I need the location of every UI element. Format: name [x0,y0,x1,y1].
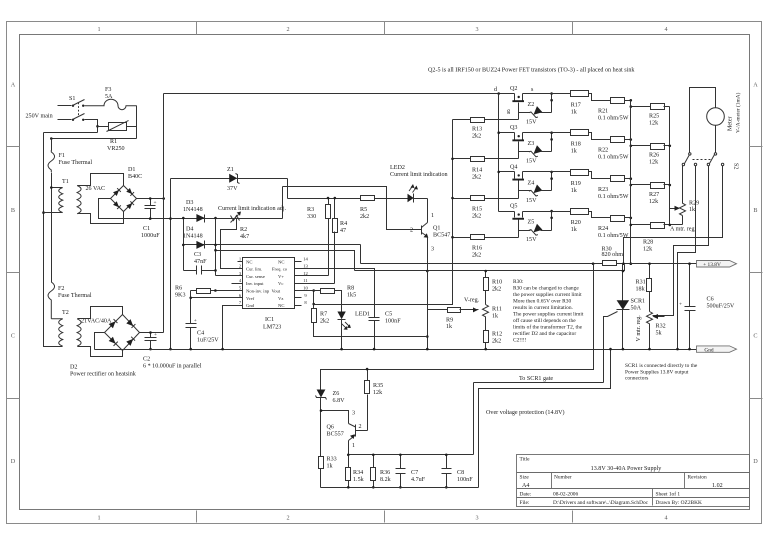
resistor R24 [598,216,631,240]
bridge rectifier D2 [70,315,140,378]
svg-text:R17: R17 [571,103,581,109]
svg-text:F1: F1 [59,153,65,159]
svg-text:2: 2 [286,26,289,33]
svg-text:1k5: 1k5 [347,293,356,299]
svg-text:12k: 12k [649,121,659,127]
svg-text:1k: 1k [571,227,578,233]
svg-text:R34: R34 [353,470,363,476]
svg-text:21VAC/40A: 21VAC/40A [81,319,112,325]
output rail +13.8 [361,263,603,265]
svg-text:R22: R22 [598,148,608,154]
svg-text:C3: C3 [194,252,201,258]
svg-text:C5: C5 [385,312,392,318]
svg-text:R4: R4 [340,221,347,227]
wire drive row [288,198,361,200]
svg-text:2k2: 2k2 [472,175,481,181]
svg-text:V-reg.: V-reg. [464,298,480,304]
svg-text:LED1: LED1 [355,312,370,318]
svg-text:R2: R2 [240,227,247,233]
RIGHT SIDE [513,88,742,383]
svg-text:3: 3 [352,411,355,417]
resistor R4 [333,199,348,284]
svg-text:Current limit indication: Current limit indication [390,172,448,178]
svg-text:To SCR1 gate: To SCR1 gate [519,376,553,382]
svg-text:Z5: Z5 [528,220,535,226]
wire crowbar sense from +13.8 rail [321,264,594,390]
wire anode feed vertical [183,219,185,271]
svg-text:R35: R35 [373,383,383,389]
svg-text:0.1 ohm/5W: 0.1 ohm/5W [598,116,629,122]
svg-text:A mtr. reg.: A mtr. reg. [670,227,697,233]
svg-text:T2: T2 [62,310,69,316]
svg-text:330: 330 [307,214,316,220]
svg-text:Inv. input: Inv. input [246,281,264,286]
wire crowbar bottom rail [321,487,479,489]
svg-text:R16: R16 [472,246,482,252]
svg-text:R10: R10 [492,280,502,286]
AC INPUT SECTION [26,87,697,378]
svg-text:Freq. co: Freq. co [272,267,288,272]
power flag Gnd [697,346,737,354]
svg-text:F2: F2 [58,286,64,292]
switch S1 [58,96,85,121]
capacitor C6 [679,264,735,350]
wire pin10 [302,290,321,292]
svg-text:2k2: 2k2 [472,253,481,259]
svg-text:R29: R29 [689,201,699,207]
svg-text:Q2-5 is all IRF150 or BUZ24 Po: Q2-5 is all IRF150 or BUZ24 Power FET tr… [428,67,635,74]
svg-text:D1: D1 [128,167,135,173]
node V+ tie [162,197,165,200]
wire row3 drain [499,171,515,173]
svg-text:820 ohm: 820 ohm [602,252,624,258]
svg-text:4k7: 4k7 [240,234,249,240]
svg-text:Sheet 1of 1: Sheet 1of 1 [656,491,681,498]
svg-text:File:: File: [520,500,530,506]
svg-text:C1: C1 [143,226,150,232]
wire L return to F1 [52,138,137,140]
wire pin13 to C5 [302,269,375,318]
transformer T2 [51,310,81,346]
svg-text:15V: 15V [526,120,537,126]
svg-text:Size: Size [520,475,530,481]
svg-text:1N4148: 1N4148 [183,207,203,213]
resistor R20 [523,209,611,234]
svg-text:+: + [154,200,157,206]
resistor R27 [631,183,670,205]
resistor R12 [484,331,503,350]
svg-text:B: B [11,207,15,214]
transistor Q6 [327,411,368,455]
wire output rail to R30 [592,262,595,265]
svg-text:C6: C6 [707,297,714,303]
resistor R28 [631,223,683,253]
svg-text:A4: A4 [522,483,529,489]
svg-text:BC547: BC547 [433,233,450,239]
svg-text:R24: R24 [598,226,608,232]
wire S2 to v-reg pot [653,166,709,316]
resistor R25 [631,104,670,127]
wire S2 to shunt sense [624,166,723,264]
svg-text:C7: C7 [411,470,418,476]
svg-text:R7: R7 [320,312,327,318]
svg-text:D2: D2 [70,365,77,371]
svg-text:+: + [679,302,682,308]
resistor R22 [598,137,631,161]
svg-text:limits of the transformer T2,: limits of the transformer T2, the [513,324,583,331]
wire sense vertical [215,219,217,276]
node junction [50,137,53,140]
wire pin7 to gnd [223,306,238,350]
svg-text:15V: 15V [526,237,537,243]
svg-text:V-/A-meter (1mA): V-/A-meter (1mA) [735,92,742,133]
wire D1 minus loop [99,199,171,219]
wire emitter row to gate pair [473,383,475,455]
svg-text:The power supplies current lim: The power supplies current limit [513,312,584,318]
svg-text:Cur. lim.: Cur. lim. [246,267,262,272]
svg-text:2k2: 2k2 [472,134,481,140]
resistor R19 [523,170,611,194]
svg-text:4.7uF: 4.7uF [411,477,426,483]
wire drive to gate bus [314,120,453,305]
svg-text:Revision: Revision [688,475,707,481]
svg-text:Z6: Z6 [333,391,340,397]
wire row4 drain [499,211,515,213]
wire D1 plus rail [137,198,164,200]
svg-text:D3: D3 [186,200,193,206]
svg-text:R30:: R30: [513,279,524,285]
potentiometer R32 [647,312,666,350]
svg-text:12k: 12k [643,247,653,253]
svg-text:NC: NC [278,303,284,308]
wire minus vertical to gnd rail [170,179,172,350]
switch S2 [682,153,738,170]
svg-text:1: 1 [352,443,355,449]
wire N return [44,132,98,134]
svg-text:3: 3 [475,515,478,522]
svg-text:Title: Title [520,457,531,463]
wire drain bus [498,94,500,212]
fuse F2 thermal [48,282,92,319]
wire D2 plus rail [140,332,164,334]
svg-text:2k2: 2k2 [360,214,369,220]
resistor R21 [598,98,631,122]
gnd rail 1 [95,349,697,351]
svg-text:NC: NC [278,259,284,264]
resistor R5 [360,196,408,221]
svg-text:Vout: Vout [272,289,281,294]
svg-text:Non-inv. inp: Non-inv. inp [246,289,270,294]
svg-text:47nF: 47nF [194,259,207,265]
svg-text:B: B [753,207,757,214]
wire pin5 [216,290,238,292]
bridge rectifier D1 [111,167,143,212]
svg-text:1: 1 [97,26,100,33]
wire sense row to rail [216,251,355,271]
wire pin3 [216,275,243,277]
svg-text:R36: R36 [380,470,390,476]
row tick marks [7,146,20,148]
node T1 primary bottom [42,211,45,214]
svg-text:3: 3 [431,247,434,253]
capacitor C2 [143,332,202,370]
trimmer R2 [221,212,250,269]
svg-text:Number: Number [554,475,572,481]
svg-text:1.02: 1.02 [712,483,723,489]
svg-text:Z4: Z4 [528,180,535,186]
fuse F3 [85,87,137,110]
resistor R8 [321,286,357,312]
resistor R34 [346,455,365,488]
svg-text:connectors: connectors [625,376,648,382]
svg-text:C4: C4 [197,331,204,337]
svg-text:R15: R15 [472,207,482,213]
wire mains N down [44,133,63,347]
svg-text:14: 14 [303,256,308,261]
transistor Q1 [410,199,450,351]
wire current limit node top [283,187,417,230]
fuse F1 thermal [48,150,92,172]
svg-text:5k: 5k [656,331,663,337]
svg-text:R14: R14 [472,168,482,174]
svg-text:1uF/25V: 1uF/25V [197,338,219,344]
wire top bus [164,93,515,95]
transistor Q5 [510,204,524,238]
svg-text:1k: 1k [571,110,578,116]
svg-text:2k2: 2k2 [492,339,501,345]
wire V+ riser to top bus [163,94,165,199]
svg-text:D:\Drivers and software\..\Dia: D:\Drivers and software\..\Diagram.SchDo… [553,499,649,506]
svg-text:results in current limitation.: results in current limitation. [513,305,573,311]
svg-text:R26: R26 [649,153,659,159]
svg-text:D4: D4 [186,227,193,233]
varistor R1 [107,121,129,153]
wire gate pair horizontal [474,382,604,384]
svg-text:C: C [11,333,15,340]
svg-text:08-02-2006: 08-02-2006 [553,492,578,498]
LED1 [337,312,370,350]
svg-text:Current limit indication adj.: Current limit indication adj. [218,206,287,212]
svg-text:+ 13.8V: + 13.8V [703,262,721,268]
svg-text:11: 11 [303,278,308,283]
note SCR1 connection [625,363,698,382]
svg-text:13: 13 [303,264,308,269]
wire D2 minus loop to gnd [95,333,105,350]
REGULATOR SECTION [171,120,625,351]
svg-text:2: 2 [410,228,413,234]
column tick marks [196,22,198,35]
resistor R31 [636,264,652,312]
svg-text:d: d [494,87,497,93]
zener Z3 [519,131,553,164]
svg-text:1k: 1k [571,188,578,194]
capacitor C4 [186,318,220,350]
svg-text:2k2: 2k2 [320,319,329,325]
svg-text:0.1 ohm/5W: 0.1 ohm/5W [598,194,629,200]
node D3 junction [214,217,217,220]
svg-text:1k: 1k [571,149,578,155]
svg-text:1: 1 [97,515,100,522]
gate resistor R15 [453,196,519,220]
svg-text:4: 4 [664,26,667,33]
svg-text:Date:: Date: [520,492,532,498]
wire S2 to +13.8 [678,166,696,350]
wire D3 row [171,218,283,220]
svg-text:R30 can be changed to change: R30 can be changed to change [513,286,579,292]
svg-text:SCR1: SCR1 [631,299,646,305]
wire Q2 source row / resistor R17 [523,91,611,116]
svg-text:V+: V+ [278,274,284,279]
svg-text:D: D [753,458,758,465]
svg-text:B40C: B40C [128,174,142,180]
svg-text:Over voltage protection (14.8V: Over voltage protection (14.8V) [486,409,565,416]
svg-text:18k: 18k [636,287,646,293]
svg-text:Q2: Q2 [510,86,517,92]
svg-text:1k: 1k [492,314,499,320]
svg-text:F3: F3 [105,87,111,93]
svg-text:Z1: Z1 [227,167,234,173]
wire F1 to T1 and down to F2 [52,173,63,188]
wire Z1 right drop [287,179,289,199]
svg-text:12k: 12k [649,160,659,166]
wire S2 a-range [682,166,684,204]
resistor R7 [312,291,428,337]
resistor R33 [319,457,337,488]
wire emitter row [349,454,474,456]
svg-text:C: C [753,333,757,340]
svg-text:Meter: Meter [728,116,734,131]
svg-text:Cur. sense: Cur. sense [246,274,265,279]
svg-text:8.2k: 8.2k [380,477,392,483]
svg-text:Vc: Vc [278,281,283,286]
node drain bus top [497,92,500,95]
svg-text:Q5: Q5 [510,204,517,210]
potentiometer R29 [670,167,700,225]
IC op-amp regulator U1 LM723 [238,256,309,330]
svg-text:1k: 1k [446,324,453,330]
svg-text:A: A [11,82,16,89]
svg-text:rectifier D2 and the capacitor: rectifier D2 and the capacitor [513,330,576,337]
svg-text:15V: 15V [526,198,537,204]
svg-text:+: + [154,332,157,338]
svg-text:0.1 ohm/5W: 0.1 ohm/5W [598,155,629,161]
svg-text:1000uF: 1000uF [141,233,160,239]
svg-text:g: g [507,109,510,115]
svg-text:Power Supplies 13.8V output: Power Supplies 13.8V output [625,369,689,375]
capacitor C5 [369,312,402,350]
svg-text:LED2: LED2 [390,165,405,171]
svg-text:C2!!!!: C2!!!! [513,338,527,344]
svg-text:2k2: 2k2 [492,287,501,293]
zener Z5 [519,210,553,243]
svg-text:R12: R12 [492,332,502,338]
wire bottom rail riser [479,350,611,488]
resistor R6 [175,286,216,299]
wire meter chain bus [669,107,671,225]
diode D3 [183,200,205,223]
svg-text:NC: NC [246,259,252,264]
resistor R18 [523,130,611,155]
svg-text:R18: R18 [571,142,581,148]
svg-text:Power rectifier on heatsink: Power rectifier on heatsink [70,371,137,378]
svg-text:R33: R33 [327,457,337,463]
svg-text:Z2: Z2 [528,102,535,108]
svg-text:26 VAC: 26 VAC [86,186,106,192]
wire pin4 stub [232,283,238,285]
svg-text:9K3: 9K3 [175,293,186,299]
svg-text:R13: R13 [472,127,482,133]
potentiometer R11 [483,305,502,331]
svg-text:S1: S1 [69,96,75,102]
capacitor C1 [141,199,160,240]
svg-text:R3: R3 [307,207,314,213]
svg-text:D: D [11,458,16,465]
svg-text:R9: R9 [446,318,453,324]
svg-text:3: 3 [475,26,478,33]
wire D4 row to output rail [184,244,361,246]
svg-text:Q6: Q6 [327,425,334,431]
resistor R35 [365,370,384,431]
transistor Q4 [510,164,524,198]
svg-text:50A: 50A [631,306,642,312]
svg-text:37V: 37V [227,186,238,192]
svg-text:12k: 12k [373,390,383,396]
zener Z2 [519,92,553,125]
transistor Q3 [510,125,524,158]
gate resistor R14 [453,157,519,181]
svg-text:R21: R21 [598,109,608,115]
capacitor C3 [184,252,216,275]
svg-text:15V: 15V [526,159,537,165]
zener Z6 [316,390,346,457]
svg-text:R11: R11 [492,307,502,313]
wire mains L down [51,139,53,151]
svg-text:R6: R6 [175,286,182,292]
svg-text:10: 10 [303,286,308,291]
svg-text:LM723: LM723 [263,325,281,331]
svg-text:R27: R27 [649,192,659,198]
svg-text:the power supplies current lim: the power supplies current limit [513,292,582,298]
svg-text:C2: C2 [143,357,150,363]
output sense rail [355,265,625,271]
svg-text:500uF/25V: 500uF/25V [707,304,735,310]
svg-text:R1: R1 [110,139,117,145]
SCR1 [604,264,646,383]
svg-text:Drawn By: OZ2BKK: Drawn By: OZ2BKK [656,500,703,506]
resistor R10 [484,271,503,305]
resistor R3 [307,199,331,276]
note R30 text block [513,279,584,344]
svg-text:6 * 10.000uF in parallel: 6 * 10.000uF in parallel [143,364,202,370]
svg-text:1k: 1k [689,207,696,213]
svg-text:R8: R8 [347,286,354,292]
svg-text:Q1: Q1 [433,226,440,232]
svg-text:S2: S2 [733,163,739,169]
shunt resistor R30 [602,247,624,266]
svg-text:Gnd: Gnd [704,347,714,353]
svg-text:R23: R23 [598,187,608,193]
wire T2 secondary to D2 [78,307,123,319]
svg-text:1: 1 [431,213,434,219]
svg-text:Vref: Vref [246,296,255,301]
svg-text:A: A [753,82,758,89]
svg-text:R25: R25 [649,114,659,120]
wire Z6 to Q6 collector [321,411,349,424]
svg-text:IC1: IC1 [265,317,274,323]
svg-text:1.5k: 1.5k [353,477,365,483]
wire row2 drain [499,132,515,134]
svg-text:BC557: BC557 [327,432,344,438]
